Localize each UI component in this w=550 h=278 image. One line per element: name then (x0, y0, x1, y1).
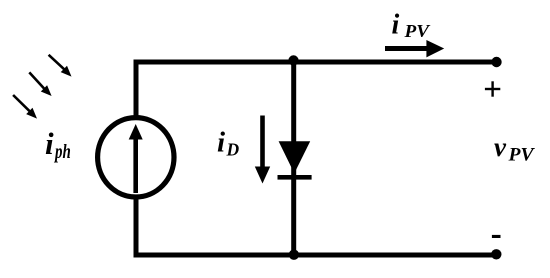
wire: top horizontal (134, 60, 497, 65)
diode D1 triangle (279, 141, 311, 173)
wire: left vertical lower (current source to bottom corner) (134, 198, 139, 258)
junction dot top middle (288, 55, 298, 65)
wire: bottom horizontal (134, 253, 497, 258)
sun ray arrow 2 (29, 72, 51, 96)
minus terminal symbol (492, 235, 501, 238)
sun ray arrow 3 (13, 95, 37, 119)
terminal dot bottom right (491, 249, 501, 259)
junction dot bottom middle (289, 250, 299, 260)
sun ray arrow 1 (49, 55, 72, 77)
svg-text:PV: PV (403, 21, 430, 41)
terminal dot top right (491, 57, 501, 67)
current arrow i_PV (right) (385, 40, 444, 57)
svg-text:ph: ph (54, 141, 71, 163)
current source arrow (up) (129, 124, 143, 193)
diode D1 cathode bar (278, 175, 312, 180)
svg-text:v: v (494, 132, 507, 162)
plus terminal symbol (485, 81, 500, 96)
svg-text:i: i (45, 126, 54, 161)
svg-text:i: i (392, 9, 400, 40)
svg-text:PV: PV (507, 146, 535, 166)
wire: middle vertical (diode branch) (291, 62, 296, 255)
current arrow i_D (down) (255, 116, 270, 184)
svg-text:D: D (226, 139, 240, 159)
svg-text:i: i (217, 126, 225, 158)
current source U1 circle (98, 118, 174, 197)
wire: left vertical upper (top corner to current source) (134, 60, 139, 118)
